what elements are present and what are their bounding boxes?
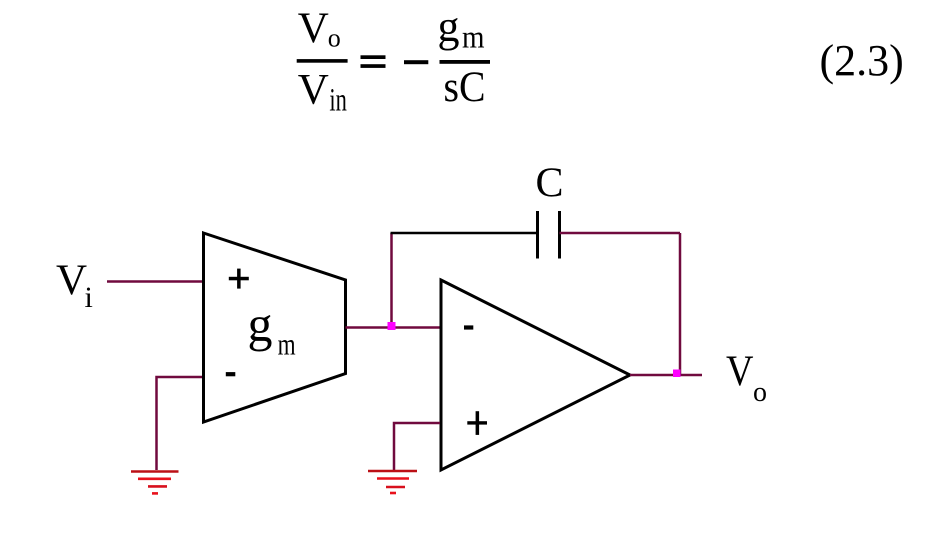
ground G2 (368, 471, 417, 493)
label Vo (726, 348, 767, 408)
equation denominator Vin (298, 67, 347, 119)
label Vi (56, 257, 93, 314)
equation fraction bar left (297, 59, 348, 63)
svg-text:m: m (278, 326, 296, 361)
svg-text:V: V (298, 5, 329, 52)
node B junction dot (673, 370, 681, 378)
svg-text:V: V (298, 67, 329, 114)
capacitor C1 plates (538, 211, 560, 259)
op-amp U2 triangle body (441, 280, 630, 470)
wire U1 minus input (157, 377, 203, 470)
equation minus sign (404, 60, 428, 64)
wire Vi input (107, 280, 202, 283)
wire U2 output (630, 374, 702, 377)
equation numerator gm (438, 2, 485, 54)
svg-text:(2.3): (2.3) (820, 36, 904, 85)
equation equals sign (361, 55, 386, 68)
wire U2 plus input (394, 423, 440, 470)
equation fraction bar right (440, 60, 491, 64)
wire junction A up to capacitor (390, 233, 393, 328)
svg-text:m: m (462, 18, 485, 54)
svg-text:g: g (248, 296, 273, 352)
svg-text:in: in (329, 83, 347, 119)
label gm on U1 (248, 296, 296, 361)
ground G1 (131, 472, 179, 494)
wire capacitor right (560, 232, 681, 235)
label + on U1 (229, 269, 249, 289)
svg-text:g: g (438, 2, 460, 51)
svg-text:V: V (726, 348, 754, 395)
svg-text:o: o (328, 23, 341, 52)
node A junction dot (388, 322, 396, 330)
svg-text:sC: sC (444, 64, 486, 111)
label + on U2 (467, 411, 487, 435)
svg-text:o: o (753, 377, 767, 408)
wire feedback vertical (679, 233, 682, 374)
svg-text:i: i (85, 281, 93, 314)
label - on U2 (464, 325, 473, 329)
wire capacitor left (black) (391, 232, 538, 235)
wire U1 output to opamp minus input (346, 326, 441, 329)
label - on U1 (226, 372, 236, 376)
transconductor U1 trapezoid body (204, 233, 346, 422)
equation numerator Vo (298, 5, 341, 52)
svg-text:C: C (535, 161, 563, 207)
svg-text:V: V (56, 257, 87, 304)
